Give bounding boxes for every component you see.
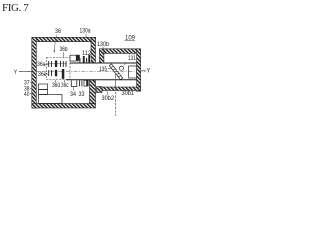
left chamber left wall xyxy=(32,37,37,108)
svg-text:109: 109 xyxy=(125,36,136,42)
duct bottom line xyxy=(66,79,137,81)
left chamber bottom wall xyxy=(32,104,96,109)
leader for 37 xyxy=(30,82,32,84)
svg-text:40: 40 xyxy=(24,92,30,98)
elevator big box xyxy=(39,95,63,104)
upper post 1 xyxy=(79,58,80,63)
right chamber bottom wall xyxy=(98,87,141,91)
leader for 33 xyxy=(82,89,84,92)
bars component 33 xyxy=(80,80,82,86)
upper post 3 xyxy=(86,58,87,63)
o-ring leader tick xyxy=(124,63,127,66)
svg-text:FIG. 7: FIG. 7 xyxy=(2,2,29,14)
roller dark bottom middle xyxy=(55,70,57,77)
upper dark square component xyxy=(76,55,80,61)
svg-text:34: 34 xyxy=(70,92,77,98)
svg-text:36d: 36d xyxy=(52,83,60,89)
right chamber bottom wall left step xyxy=(97,87,103,93)
hook component 34 xyxy=(71,81,77,87)
svg-text:Y: Y xyxy=(14,70,17,76)
svg-text:130b: 130b xyxy=(97,42,110,48)
leader line for Y left xyxy=(19,71,32,73)
roller pair bottom left xyxy=(49,70,52,76)
valve plate diagonal xyxy=(109,64,123,80)
roller dark top middle xyxy=(55,61,57,68)
leader for 30b1 xyxy=(126,89,128,90)
roller pair top left xyxy=(49,61,52,67)
svg-text:131: 131 xyxy=(128,56,137,62)
center line Y axis xyxy=(19,71,146,73)
leader for 36d xyxy=(55,80,57,83)
svg-text:36e: 36e xyxy=(38,72,47,78)
left chamber right wall lower xyxy=(90,80,96,104)
lower component dark part xyxy=(86,80,88,86)
roller pair top right xyxy=(61,61,67,67)
right chamber top wall left stub xyxy=(100,49,104,63)
axle line top row xyxy=(47,63,67,65)
duct right end xyxy=(136,63,138,80)
duct top line xyxy=(70,62,137,64)
elevator small box 1 xyxy=(39,84,48,90)
svg-text:30b1: 30b1 xyxy=(122,91,135,97)
right chamber right wall xyxy=(137,49,141,91)
svg-text:Y: Y xyxy=(147,69,151,75)
leader line for Y right xyxy=(141,70,145,72)
svg-text:36: 36 xyxy=(55,29,62,35)
leader for 130a xyxy=(85,34,87,38)
left chamber right wall upper xyxy=(91,37,96,63)
svg-text:135: 135 xyxy=(99,67,108,73)
leader for 36 xyxy=(54,35,57,52)
leader for 38 xyxy=(30,87,32,89)
upper post 4 xyxy=(88,55,90,63)
leader for 40 xyxy=(30,93,32,95)
leaders for 131 xyxy=(129,54,131,56)
roller tall bottom xyxy=(62,69,65,79)
svg-text:36a: 36a xyxy=(37,62,46,68)
leader for 36a xyxy=(45,63,48,65)
svg-text:36b: 36b xyxy=(60,47,69,53)
elevator small box 2 xyxy=(39,90,48,95)
underline for 109 xyxy=(125,39,135,41)
leader for 112 xyxy=(90,56,92,57)
lower component box xyxy=(84,80,88,86)
o-ring circle xyxy=(119,66,123,70)
right chamber top wall xyxy=(100,49,141,54)
upper box component xyxy=(70,55,78,61)
leader for 36b xyxy=(63,52,65,57)
leader for 36e xyxy=(46,73,48,75)
svg-text:130a: 130a xyxy=(80,29,92,35)
svg-text:36c: 36c xyxy=(61,83,69,89)
left chamber top wall xyxy=(32,37,96,41)
leader for 30b2 xyxy=(107,91,109,95)
leader for 130b xyxy=(102,47,104,49)
duct end inner box xyxy=(129,66,137,78)
assembly 36 dashed box xyxy=(47,58,71,80)
svg-text:33: 33 xyxy=(79,92,86,98)
upper post 2 xyxy=(83,56,85,63)
leader for 36c xyxy=(64,80,66,83)
leader for 34 xyxy=(73,87,75,91)
leader for 135 xyxy=(108,68,112,70)
valve stem xyxy=(115,74,117,87)
svg-text:30b2: 30b2 xyxy=(102,96,115,102)
